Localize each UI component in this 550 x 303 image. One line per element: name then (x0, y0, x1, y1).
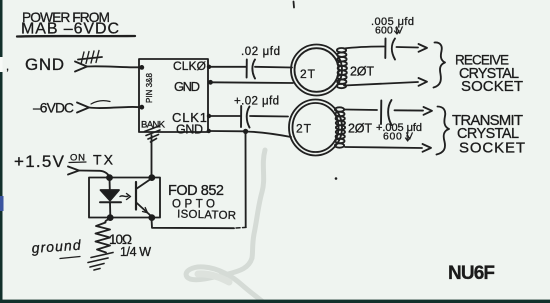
svg-text:SOCKET: SOCKET (459, 140, 525, 157)
svg-text:2T: 2T (296, 122, 312, 136)
svg-text:1/4 W: 1/4 W (120, 245, 151, 259)
svg-text:2ØT: 2ØT (350, 65, 374, 79)
svg-text:MAB –6VDC: MAB –6VDC (21, 21, 119, 38)
svg-text:PIN 3&8: PIN 3&8 (145, 72, 154, 103)
svg-text:+1.5V: +1.5V (14, 152, 65, 171)
svg-text:NU6F: NU6F (448, 263, 495, 284)
svg-text:–6VDC: –6VDC (33, 101, 74, 116)
svg-text:GND: GND (25, 55, 64, 74)
svg-text:TX: TX (93, 152, 114, 168)
svg-text:,: , (6, 61, 9, 73)
svg-text:SOCKET: SOCKET (461, 78, 523, 95)
svg-text:FOD 852: FOD 852 (168, 183, 224, 199)
svg-text:600 V: 600 V (383, 131, 413, 143)
svg-text:GND: GND (176, 123, 203, 137)
svg-text:2ØT: 2ØT (348, 122, 372, 136)
svg-text:2T: 2T (300, 67, 316, 81)
svg-text:+.02 μfd: +.02 μfd (234, 96, 279, 108)
svg-text:.02 μfd: .02 μfd (241, 46, 280, 58)
svg-text:BANK: BANK (141, 120, 166, 131)
svg-text:GND: GND (174, 79, 200, 94)
svg-text:600 V: 600 V (375, 25, 403, 37)
svg-text:ON: ON (70, 153, 85, 164)
svg-text:ISOLATOR: ISOLATOR (177, 209, 236, 223)
svg-text:CLKØ: CLKØ (173, 59, 206, 73)
